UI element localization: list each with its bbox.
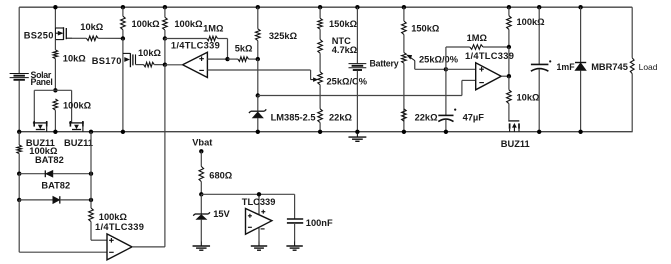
label R14 22k (415, 112, 439, 122)
svg-text:10kΩ: 10kΩ (80, 22, 104, 32)
label Q3 BUZ11 (26, 138, 55, 148)
node gate divider (121, 36, 125, 40)
wire shunt right leg (71, 90, 73, 123)
resistor R9 325k (256, 7, 261, 59)
wire U2 output (501, 75, 509, 77)
node rail at C2 (537, 130, 541, 134)
label R2 10k (63, 53, 87, 63)
resistor R3 100k (53, 99, 58, 132)
wiper arrow trimpot P2 (407, 55, 415, 69)
label R20 100k (99, 212, 128, 222)
label R11 NTC (332, 36, 358, 55)
wire left border upper (18, 7, 20, 73)
node U4 supply tee (257, 192, 261, 196)
svg-text:1/4TLC339: 1/4TLC339 (465, 51, 514, 61)
label U1 1/4TLC339 (171, 40, 220, 50)
wire top supply rail (19, 6, 632, 8)
label R5 10k (138, 48, 162, 58)
label D3 BAT82 (41, 181, 70, 191)
wire U4 Vplus pin (258, 194, 260, 214)
node top rail at D4 (578, 5, 582, 9)
node rail at R12 (318, 130, 322, 134)
svg-text:4.7kΩ: 4.7kΩ (332, 45, 358, 55)
svg-text:150kΩ: 150kΩ (329, 19, 358, 29)
wire Vcc rail (201, 193, 294, 195)
node comparator U1 output (163, 62, 167, 66)
node D2 left (17, 172, 21, 176)
label Q4 BUZ11 (64, 138, 93, 148)
resistor R1 10k (72, 36, 123, 41)
solar panel PV1 (10, 70, 53, 87)
trimpot P1 25k/C% (318, 72, 323, 109)
svg-text:Vbat: Vbat (192, 138, 212, 148)
svg-text:10kΩ: 10kΩ (138, 48, 162, 58)
node rail at C1 (444, 130, 448, 134)
label P2 25k/0% (419, 54, 459, 64)
resistor R4 100k (121, 7, 126, 38)
svg-text:BUZ11: BUZ11 (64, 138, 93, 148)
svg-text:LM385-2.5: LM385-2.5 (271, 112, 316, 122)
diode D4 MBR745 (575, 7, 586, 132)
svg-text:100kΩ: 100kΩ (99, 212, 128, 222)
svg-text:Load: Load (639, 62, 658, 72)
wire left border to D3 (18, 174, 20, 200)
transistor Q2 BS170 (92, 39, 136, 132)
node rail at battery (355, 130, 359, 134)
label 10k gate resistor R1 (80, 22, 104, 32)
wire 325k column mid (257, 59, 259, 95)
resistor R6 100k (163, 7, 168, 38)
label Vbat (192, 138, 212, 148)
label Q5 BUZ11 (501, 139, 530, 149)
ground for C3 (286, 242, 302, 251)
svg-text:10kΩ: 10kΩ (517, 93, 541, 103)
wire U4 Vminus pin (258, 227, 260, 242)
svg-text:100kΩ: 100kΩ (132, 19, 161, 29)
svg-text:100kΩ: 100kΩ (517, 17, 546, 27)
node top rail at R13 (402, 5, 406, 9)
wire U3 output (132, 246, 165, 248)
resistor R16 100k (507, 7, 512, 47)
label D2 BAT82 (35, 155, 64, 165)
label R12 22k (329, 112, 353, 122)
resistor R15 1M feedback (446, 45, 509, 70)
wire U2 minus route (258, 80, 476, 95)
node U2 plus (444, 67, 448, 71)
node Vcc junction (199, 192, 203, 196)
transistor Q4 BUZ11 right (69, 121, 84, 132)
wire U1 minus input (207, 70, 310, 80)
label R16 100k (517, 17, 546, 27)
diode D2 BAT82 (19, 170, 91, 177)
wire shunt left leg (33, 90, 35, 123)
node U2 minus tee (256, 93, 260, 97)
wire left border lower (18, 81, 20, 132)
transistor Q1 BS250 (24, 27, 72, 40)
resistor R7 1M feedback (165, 36, 228, 59)
label D5 15V (213, 209, 230, 219)
node rail at LM385 (256, 130, 260, 134)
node R15 feedback junction (507, 45, 511, 49)
node top rail at C2 (537, 5, 541, 9)
resistor R20 100k (89, 208, 94, 240)
resistor R8 5k (228, 57, 258, 62)
resistor R5 10k (136, 62, 165, 67)
label R19 100k (29, 146, 58, 156)
svg-text:1/4TLC339: 1/4TLC339 (95, 222, 144, 232)
resistor R10 150k (318, 7, 323, 39)
transistor Q3 BUZ11 left (33, 121, 48, 132)
resistor R14 22k (402, 109, 407, 121)
wire BS250 to 10k vertical (54, 40, 56, 50)
svg-text:5kΩ: 5kΩ (235, 44, 253, 54)
wire U1 plus input (207, 58, 227, 60)
label U4 TLC339 (242, 197, 276, 207)
op-amp U3 1/4TLC339 (107, 234, 132, 260)
op-amp U4 TLC339 power (246, 209, 272, 235)
node rail at left border (17, 130, 21, 134)
svg-text:Battery: Battery (370, 58, 399, 68)
svg-text:47µF: 47µF (463, 112, 485, 122)
node D3 left (17, 198, 21, 202)
svg-text:MBR745: MBR745 (591, 62, 628, 72)
node shunt junction (53, 88, 57, 92)
svg-text:100kΩ: 100kΩ (174, 19, 203, 29)
label D1 LM385-2.5 (271, 112, 316, 122)
svg-text:1mF: 1mF (557, 62, 576, 72)
ground main (348, 133, 366, 142)
node rail at D4 (578, 130, 582, 134)
capacitor C1 47uF (438, 69, 456, 132)
wire U3 plus input (91, 239, 107, 241)
resistor R2 10k vertical (53, 50, 58, 91)
wire shunt U-bar (34, 89, 71, 91)
svg-text:100nF: 100nF (306, 218, 333, 228)
capacitor C2 1mF (531, 7, 551, 132)
node rail at BS170 source (121, 130, 125, 134)
battery BT1 (349, 58, 399, 70)
node U1 plus (225, 57, 229, 61)
thermistor R11 NTC 4.7k (318, 40, 323, 72)
svg-text:BUZ11: BUZ11 (501, 139, 530, 149)
op-amp U2 1/4TLC339 (476, 63, 502, 90)
label R10 150k (329, 19, 358, 29)
ground for D5 (193, 242, 211, 251)
wire U2 output column (508, 47, 510, 76)
svg-text:325kΩ: 325kΩ (269, 31, 298, 41)
wire output bus upper (164, 39, 166, 65)
diode D5 zener 15V (193, 194, 210, 241)
node top rail at R9 (256, 5, 260, 9)
resistor R18 load (630, 58, 634, 74)
wire gate bus vertical (90, 132, 92, 208)
label C1 47uF (463, 112, 485, 122)
svg-text:BAT82: BAT82 (35, 155, 64, 165)
label C3 100nF (306, 218, 333, 228)
svg-text:25kΩ/0%: 25kΩ/0% (419, 54, 459, 64)
svg-text:BAT82: BAT82 (41, 181, 70, 191)
svg-text:Panel: Panel (31, 77, 53, 87)
diode D3 BAT82 (19, 196, 91, 203)
wire right border lower (631, 74, 633, 132)
resistor R17 10k (507, 76, 512, 120)
node 5k junction (256, 57, 260, 61)
label R9 325k (269, 31, 298, 41)
node top rail at R10 (318, 5, 322, 9)
ground for U4 (251, 242, 267, 251)
svg-text:BS250: BS250 (24, 31, 54, 41)
node top rail at R4 (121, 5, 125, 9)
label R21 680 (209, 171, 233, 181)
svg-text:25kΩ/C%: 25kΩ/C% (327, 76, 368, 86)
node top rail at R16 (507, 5, 511, 9)
label P1 25k/C% (327, 76, 368, 86)
node rail at R3 (53, 130, 57, 134)
label C2 1mF (557, 62, 576, 72)
svg-text:1MΩ: 1MΩ (203, 23, 224, 33)
label R8 5k (235, 44, 253, 54)
diode D1 LM385-2.5 (249, 109, 266, 131)
wire U1 output (165, 64, 183, 66)
node rail at R14 (402, 130, 406, 134)
svg-text:1MΩ: 1MΩ (467, 33, 488, 43)
wire U2 plus input (446, 68, 476, 70)
node feedback tee (163, 36, 167, 40)
node Vbat terminal (199, 149, 203, 153)
label R3 100k (63, 101, 92, 111)
label R15 1M (467, 33, 488, 43)
wire right border upper (631, 7, 633, 58)
resistor R19 100k (17, 132, 22, 174)
svg-text:680Ω: 680Ω (209, 171, 233, 181)
resistor R21 680 (199, 151, 204, 194)
label U3 1/4TLC339 (95, 222, 144, 232)
svg-text:22kΩ: 22kΩ (329, 112, 353, 122)
node U2 output (507, 74, 511, 78)
wire bottom ground rail (19, 131, 632, 133)
label U2 1/4TLC339 (465, 51, 514, 61)
label R4 100k (132, 19, 161, 29)
svg-text:BS170: BS170 (92, 56, 122, 66)
resistor R12 22k (318, 109, 323, 132)
node rail at gate bus (89, 130, 93, 134)
svg-text:1/4TLC339: 1/4TLC339 (171, 40, 220, 50)
svg-text:15V: 15V (213, 209, 230, 219)
label R18 Load (639, 62, 658, 72)
node top rail at BS250 (53, 5, 57, 9)
node top rail at R6 (163, 5, 167, 9)
resistor R13 150k (402, 7, 407, 52)
label R17 10k (517, 93, 541, 103)
wire battery top (356, 7, 358, 63)
node D2 right (89, 172, 93, 176)
wire BS250 drain stub (54, 7, 56, 27)
svg-text:100kΩ: 100kΩ (63, 101, 92, 111)
label R7 1M (203, 23, 224, 33)
label D4 MBR745 (591, 62, 628, 72)
svg-text:22kΩ: 22kΩ (415, 112, 439, 122)
wire output bus to lower comparator (164, 65, 166, 247)
trimpot P2 25k/0% (402, 53, 407, 132)
node D3 right (89, 198, 93, 202)
svg-text:10kΩ: 10kΩ (63, 53, 87, 63)
wire U3 minus route (19, 200, 107, 252)
transistor Q5 BUZ11 (508, 121, 519, 132)
capacitor C3 100nF (287, 194, 303, 241)
wire to LM385 (257, 96, 259, 111)
wire P2 wiper to U2 plus (415, 68, 446, 70)
op-amp U1 1/4TLC339 (183, 52, 208, 77)
wiper arrow trimpot P1 (311, 78, 318, 82)
label R6 100k (174, 19, 203, 29)
node top rail at battery (355, 5, 359, 9)
label R13 150k (411, 24, 440, 34)
svg-text:150kΩ: 150kΩ (411, 24, 440, 34)
wire battery bottom (356, 71, 358, 132)
